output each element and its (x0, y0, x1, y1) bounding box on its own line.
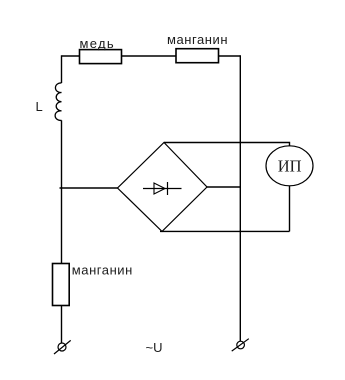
wire: left vertical upper segment (bend at top-left down to inductor) (61, 55, 63, 83)
left terminal circle (58, 343, 66, 351)
wire: horizontal between R1 and R2 (122, 55, 177, 57)
wire: top-left horizontal from left vertical to copper resistor (62, 55, 80, 57)
wire: node A horizontal to diamond left vertex (60, 187, 118, 189)
left terminal slash (54, 340, 71, 354)
right terminal circle (237, 341, 245, 349)
wire: diamond top vertex to meter top (horizontal + drop) (164, 143, 290, 147)
svg-text:манганин: манганин (72, 262, 133, 277)
svg-text:медь: медь (80, 36, 115, 51)
diode triangle (154, 183, 165, 194)
right terminal slash (232, 339, 249, 351)
resistor R2 (manganin) box (176, 49, 219, 63)
resistor R1 (copper) box (80, 50, 122, 64)
svg-text:ИП: ИП (278, 157, 302, 176)
inductor L (coil of 4 left-bulging arcs) (55, 83, 61, 120)
wire: from R3 bottom down to left terminal (61, 306, 63, 344)
wire: vertical from meter bottom down to bottom horizontal (289, 186, 291, 232)
wire: left vertical from node A down to manganin resistor R3 (61, 188, 63, 264)
bridge rectifier diamond (118, 143, 208, 232)
wire: diamond right vertex to right vertical (207, 186, 240, 188)
wire: diamond bottom vertex horizontal to meter drop (160, 230, 290, 232)
svg-text:манганин: манганин (167, 32, 228, 47)
resistor R3 (manganin, vertical) box (53, 264, 70, 306)
svg-text:L: L (36, 99, 43, 114)
diode cathode bar (167, 182, 169, 195)
wire: right vertical from top bend down to right terminal (239, 55, 241, 341)
wire: horizontal from R2 to right vertical (219, 55, 241, 57)
wire: left vertical from inductor down to node A (61, 120, 63, 188)
svg-text:~U: ~U (146, 340, 163, 355)
meter U1 (ИП) circle (266, 146, 313, 186)
diode inside bridge: anode lead (143, 188, 182, 190)
